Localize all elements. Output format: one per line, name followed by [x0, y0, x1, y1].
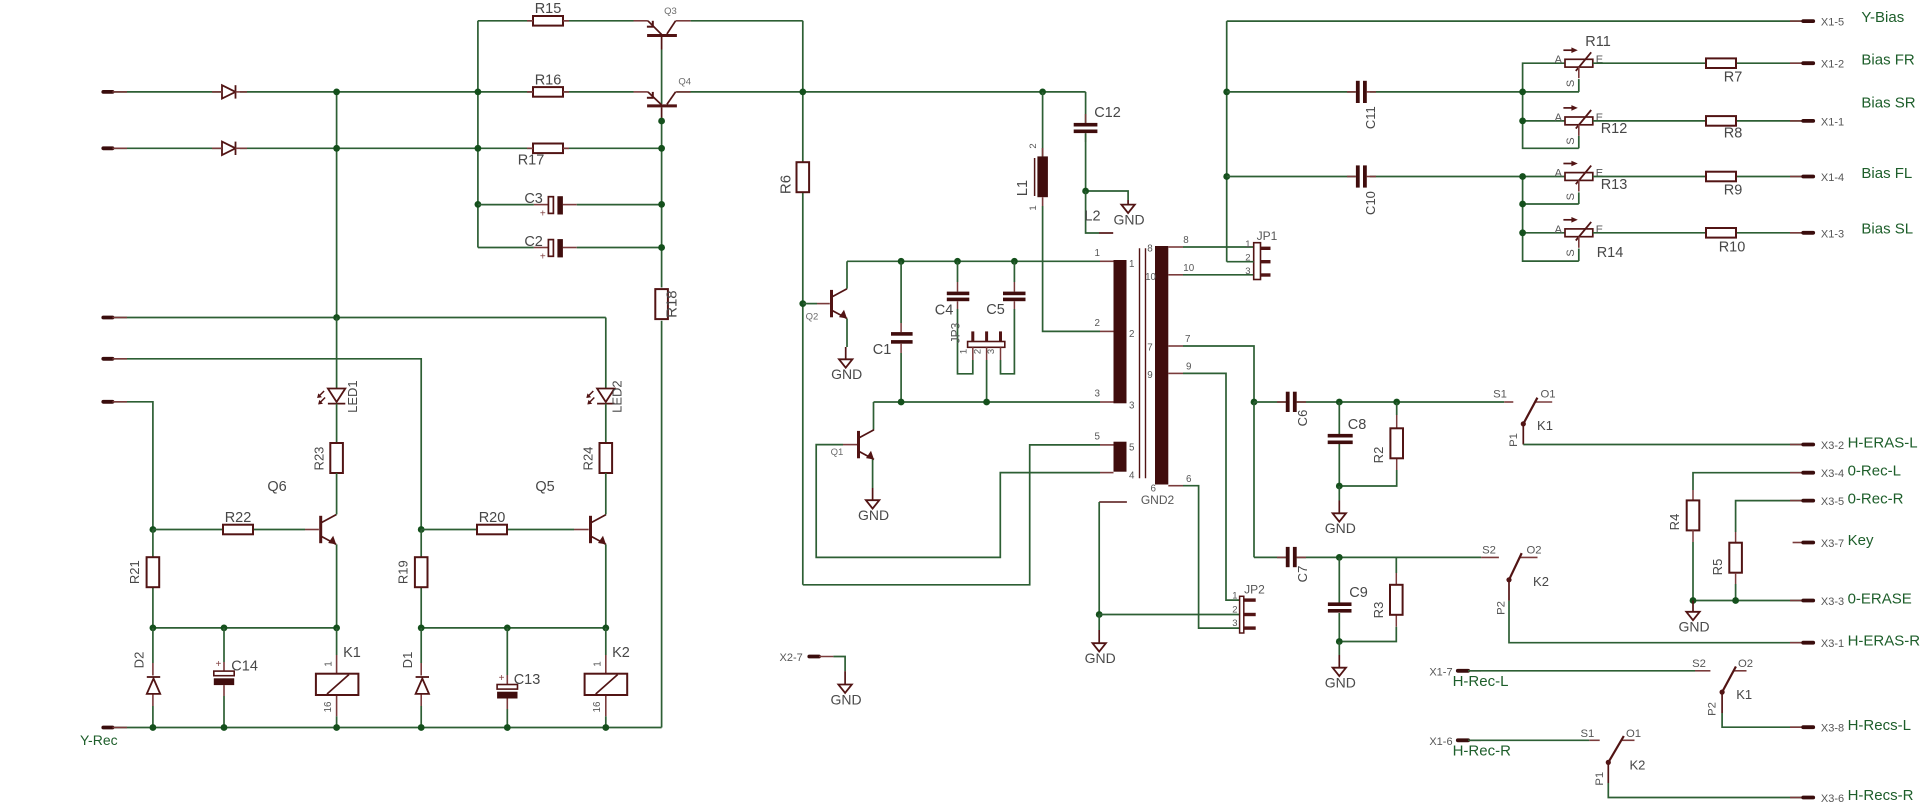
net label Bias SL [1861, 221, 1913, 238]
junction C1 top [898, 258, 905, 265]
capacitor C4 [947, 261, 970, 309]
input stub left 4 [103, 357, 127, 361]
junction C4 top [954, 258, 961, 265]
svg-text:3: 3 [1245, 266, 1250, 277]
junction L1 top [1039, 89, 1046, 96]
label D1 [400, 652, 415, 669]
label R5 [1710, 559, 1725, 576]
trafo pin3 [1095, 389, 1135, 412]
trafo pin8 [1147, 235, 1189, 255]
svg-text:R19: R19 [396, 560, 411, 584]
svg-text:H-Recs-R: H-Recs-R [1848, 787, 1914, 804]
svg-text:2: 2 [972, 349, 983, 354]
svg-text:K2: K2 [1533, 574, 1549, 589]
wire X3-5 row [1736, 501, 1804, 532]
label C2 [524, 234, 546, 262]
label Q2 [806, 312, 819, 323]
svg-text:X1-4: X1-4 [1821, 172, 1844, 184]
svg-text:X3-8: X3-8 [1821, 723, 1844, 735]
svg-text:R20: R20 [479, 510, 506, 526]
wire Q3 base to Q4 [661, 37, 663, 104]
wire L2 stub [1086, 191, 1114, 233]
svg-text:GND: GND [831, 691, 862, 707]
svg-text:H-Recs-L: H-Recs-L [1848, 717, 1911, 734]
svg-text:O1: O1 [1626, 728, 1641, 740]
junction C8 bottom [1336, 483, 1343, 490]
svg-text:R5: R5 [1710, 559, 1725, 576]
wire pin8 to JP1 [1183, 246, 1254, 248]
svg-text:2: 2 [1232, 605, 1237, 616]
svg-text:H-ERAS-L: H-ERAS-L [1848, 435, 1918, 452]
wire R7 row [1593, 62, 1803, 64]
capacitor C13 [497, 685, 517, 699]
svg-text:X2-7: X2-7 [780, 652, 803, 664]
svg-text:GND: GND [1114, 211, 1145, 227]
label P2 (K2) [1496, 601, 1508, 615]
svg-text:R14: R14 [1597, 245, 1624, 261]
pin X3-1 [1790, 638, 1844, 650]
resistor R8 [1706, 116, 1736, 126]
label K1 lower [1736, 687, 1752, 702]
resistor R4 [1687, 490, 1700, 601]
wire net3 row [874, 401, 1101, 403]
wire K2 coil column [605, 628, 607, 728]
wire X1-7 to S2 [1468, 670, 1710, 672]
svg-text:C14: C14 [231, 659, 258, 675]
svg-text:R12: R12 [1601, 121, 1628, 137]
label LED1 [345, 380, 360, 413]
trimmer R12 [1563, 105, 1592, 136]
svg-text:8: 8 [1147, 244, 1153, 255]
net label H-Recs-R [1848, 787, 1914, 804]
label R23 [312, 447, 327, 471]
diode D1 [416, 677, 429, 694]
capacitor C12 [1074, 114, 1098, 142]
input stub top-left 1 [103, 90, 127, 94]
junction rail d [418, 724, 425, 731]
svg-text:P1: P1 [1594, 772, 1606, 786]
svg-text:2: 2 [1095, 318, 1100, 329]
switch K2 contact [1506, 553, 1537, 582]
svg-text:P2: P2 [1707, 702, 1719, 716]
transformer T1 left winding [1114, 260, 1127, 403]
label R7 [1724, 70, 1743, 86]
svg-text:+: + [499, 673, 505, 684]
wire x1254 down to C7 [1253, 402, 1255, 557]
wire C6 row [1254, 401, 1513, 403]
label P2 (k3) [1707, 702, 1719, 716]
svg-text:R11: R11 [1585, 34, 1611, 50]
junction C1 bottom [898, 399, 905, 406]
svg-text:C2: C2 [524, 234, 543, 250]
wire net y628 right [421, 627, 606, 629]
junction x803 y92 [799, 89, 806, 96]
svg-text:O2: O2 [1526, 545, 1541, 557]
net label Key [1848, 532, 1874, 549]
svg-text:O1: O1 [1540, 389, 1555, 401]
wire LED1 string [337, 318, 606, 389]
net X2-7 stub [809, 655, 819, 659]
svg-text:10: 10 [1183, 263, 1194, 274]
svg-text:C8: C8 [1348, 417, 1367, 433]
svg-text:5: 5 [1129, 443, 1135, 454]
wire LED2-R24 [605, 404, 607, 443]
junction x478 y204 [475, 201, 482, 208]
wire R20 row [421, 529, 589, 531]
svg-text:+: + [540, 251, 546, 262]
svg-text:2: 2 [1028, 143, 1039, 148]
svg-text:R24: R24 [581, 447, 596, 471]
wire net y317 row [113, 317, 606, 319]
svg-text:D1: D1 [400, 652, 415, 669]
svg-text:R2: R2 [1371, 447, 1386, 464]
svg-text:E: E [1596, 54, 1603, 66]
switch K1 contact [1521, 398, 1552, 427]
pin X3-4 [1790, 468, 1844, 480]
label JP2 [1232, 583, 1265, 630]
svg-text:E: E [1596, 224, 1603, 236]
capacitor C7 [1277, 547, 1306, 567]
label O1 (k4) [1626, 728, 1641, 740]
label C10 [1363, 191, 1378, 215]
svg-text:L2: L2 [1084, 209, 1100, 225]
svg-text:C6: C6 [1295, 410, 1310, 427]
wire C13 column [506, 628, 508, 728]
transistor Q6 [321, 514, 337, 544]
svg-text:R8: R8 [1724, 126, 1743, 142]
wire net y21 top [478, 20, 803, 22]
svg-text:C13: C13 [514, 672, 541, 688]
svg-text:1: 1 [959, 349, 970, 354]
svg-text:X1-2: X1-2 [1821, 59, 1844, 71]
junction x478 y92 [475, 89, 482, 96]
svg-text:Q5: Q5 [535, 479, 554, 495]
wire K2 lower P1 [1608, 762, 1803, 797]
label C11 [1363, 106, 1378, 129]
pin X3-7 [1803, 538, 1844, 550]
wire X3-3 row [1693, 600, 1803, 602]
svg-text:GND2: GND2 [1141, 493, 1175, 507]
ground GND (Q1) [858, 488, 889, 523]
svg-text:GND: GND [1325, 520, 1356, 536]
pin X3-2 [1790, 440, 1844, 452]
svg-text:GND: GND [831, 366, 862, 382]
input stub left 3 [103, 316, 127, 320]
label P1 (k4) [1594, 772, 1606, 786]
wire net y628 left [153, 627, 337, 629]
svg-text:8: 8 [1183, 235, 1189, 246]
wire R10 row [1593, 232, 1803, 234]
svg-text:A: A [1555, 168, 1563, 180]
junction x336 y317 [333, 314, 340, 321]
svg-text:C1: C1 [873, 342, 892, 358]
net label H-ERAS-R [1848, 633, 1920, 650]
junction R13 A node [1519, 173, 1526, 180]
svg-text:R4: R4 [1667, 514, 1682, 531]
pin X3-5 [1790, 496, 1844, 508]
junction JP3 pin2 [983, 399, 990, 406]
junction x336 y92 [333, 89, 340, 96]
svg-text:X3-6: X3-6 [1821, 793, 1844, 805]
wire pin7 route [1183, 346, 1254, 402]
label Q5 [535, 479, 554, 495]
resistor R5 [1729, 532, 1742, 601]
diode D(top1) [212, 85, 247, 98]
svg-text:Q3: Q3 [664, 6, 677, 17]
svg-text:3: 3 [1232, 618, 1237, 629]
wire pin9 route [1183, 373, 1239, 600]
junction C10 left [1223, 173, 1230, 180]
junction R2 top [1393, 399, 1400, 406]
svg-text:C12: C12 [1094, 105, 1121, 121]
svg-text:H-Rec-R: H-Rec-R [1453, 742, 1511, 759]
label P1 (K1) [1508, 433, 1520, 447]
wire R13 bus [1523, 177, 1579, 262]
svg-text:R6: R6 [777, 175, 794, 194]
wire Q1 base route [816, 445, 1100, 558]
capacitor C6 [1277, 392, 1306, 412]
net label H-Rec-L [1453, 673, 1509, 690]
junction y628 d [418, 625, 425, 632]
svg-text:R3: R3 [1371, 602, 1386, 619]
svg-text:Q1: Q1 [831, 447, 844, 458]
wire Q2 collector up [846, 261, 848, 288]
svg-text:A: A [1555, 112, 1563, 124]
pin X1-1 [1790, 116, 1844, 128]
svg-text:X3-4: X3-4 [1821, 468, 1844, 480]
junction R13 S node [1519, 201, 1526, 208]
svg-text:Bias FR: Bias FR [1861, 52, 1915, 69]
svg-text:0-Rec-L: 0-Rec-L [1848, 463, 1901, 480]
svg-text:16: 16 [592, 701, 603, 712]
label C13 [499, 672, 541, 688]
wire X2-7 to gnd [819, 657, 845, 672]
svg-text:GND: GND [1325, 675, 1356, 691]
pin X1-3 [1790, 228, 1844, 240]
svg-text:S2: S2 [1482, 545, 1496, 557]
junction x478 y148 [475, 145, 482, 152]
wire K2 P2 [1509, 580, 1803, 643]
junction R22 left [150, 526, 157, 533]
wire D1 column [420, 628, 422, 728]
wire Q4 base down / R18 column [661, 118, 663, 728]
resistor R20 [477, 525, 507, 535]
svg-text:JP1: JP1 [1257, 229, 1278, 243]
label O2 (k3) [1738, 658, 1753, 670]
pin X1-4 [1790, 172, 1844, 184]
pin X3-6 [1790, 793, 1844, 805]
net label H-Recs-L [1848, 717, 1911, 734]
svg-text:C11: C11 [1363, 106, 1378, 129]
svg-text:P1: P1 [1508, 433, 1520, 447]
wire R22 row [153, 529, 319, 531]
svg-text:S: S [1565, 80, 1577, 87]
wire GND2 to gnd [1098, 502, 1100, 615]
labels R14 [1555, 224, 1624, 261]
label R18 [664, 290, 681, 318]
label C12 [1094, 105, 1121, 121]
ground GND (C9) [1325, 642, 1356, 691]
label X2-7 [780, 652, 803, 664]
capacitor C8 [1328, 434, 1353, 444]
junction pin7/C6 node [1251, 399, 1258, 406]
trimmer R11 [1563, 47, 1592, 78]
switch K2 lower contact [1606, 736, 1635, 765]
wire C11 row [1227, 91, 1579, 93]
wire net1 top cap row [847, 260, 1100, 262]
wire X1-6 to S1 [1468, 739, 1600, 741]
capacitor C3 [534, 196, 577, 214]
svg-text:C5: C5 [986, 302, 1005, 318]
junction R14 A node [1519, 229, 1526, 236]
svg-text:X3-1: X3-1 [1821, 638, 1844, 650]
svg-text:R9: R9 [1724, 183, 1743, 199]
junction x661 y248 [658, 244, 665, 251]
input stub left 5 [103, 400, 127, 404]
svg-text:1: 1 [1245, 239, 1250, 250]
svg-text:9: 9 [1186, 362, 1191, 373]
pin X3-8 [1790, 723, 1844, 735]
svg-text:JP3: JP3 [949, 322, 963, 343]
wire K1 coil column [336, 628, 338, 728]
svg-text:C7: C7 [1295, 566, 1310, 583]
ground GND (Q2) [831, 347, 862, 382]
svg-text:S2: S2 [1692, 658, 1706, 670]
junction R12 A node [1519, 118, 1526, 125]
label S1 [1493, 389, 1507, 401]
svg-text:+: + [540, 209, 546, 220]
label K2 relay [592, 645, 630, 712]
pin X1-7 [1429, 666, 1481, 678]
diode D2 [147, 677, 160, 694]
svg-text:+: + [215, 659, 221, 670]
wire R11 bus [1523, 63, 1579, 148]
svg-text:X1-6: X1-6 [1429, 736, 1452, 748]
junction rail a [150, 724, 157, 731]
junction y628 e [504, 625, 511, 632]
wire D2 column [152, 628, 154, 728]
wire net y402 row [113, 402, 153, 530]
wire Q6 emitter down [336, 544, 338, 628]
junction rail e [504, 724, 511, 731]
pin X1-5 [1790, 17, 1844, 29]
junction Q4 base y121 [658, 118, 665, 125]
label R17 [518, 153, 545, 169]
svg-text:X3-3: X3-3 [1821, 596, 1844, 608]
svg-text:C10: C10 [1363, 191, 1378, 215]
wire pin10 to JP1 [1183, 274, 1254, 276]
diode D(top2) [212, 142, 247, 155]
svg-text:4: 4 [1129, 471, 1135, 482]
label R9 [1724, 183, 1743, 199]
svg-text:GND: GND [1085, 650, 1116, 666]
wire vertical x478 left bus [477, 21, 479, 248]
svg-text:H-ERAS-R: H-ERAS-R [1848, 633, 1920, 650]
label O1 [1540, 389, 1555, 401]
label LED2 [610, 380, 625, 413]
labels R12 [1555, 112, 1628, 145]
junction R19 left [418, 526, 425, 533]
trafo pin1 [1095, 248, 1135, 270]
label C1 [873, 342, 892, 358]
svg-text:R13: R13 [1601, 177, 1628, 193]
net GND2 stub [1099, 501, 1127, 503]
wire R23-Q6col [336, 473, 338, 514]
ground GND (X2-7) [831, 671, 862, 707]
label C7 [1295, 566, 1310, 583]
svg-text:S1: S1 [1493, 389, 1507, 401]
label K1 switch [1537, 418, 1553, 433]
wire JP3 pin2 down [986, 360, 988, 402]
ground GND (C8) [1325, 486, 1356, 536]
label JP1 [1245, 229, 1277, 277]
wire C8 column [1338, 402, 1340, 486]
wire C10 row [1227, 176, 1565, 178]
label K2 lower [1629, 758, 1645, 773]
capacitor C1 [891, 261, 913, 402]
trafo pin7 [1147, 334, 1190, 354]
label K2 switch [1533, 574, 1549, 589]
wire net y358 row [113, 359, 422, 530]
trafo pin5 [1095, 431, 1135, 453]
svg-text:R22: R22 [225, 510, 252, 526]
junction x336 y148 [333, 145, 340, 152]
transformer core [1140, 248, 1146, 478]
svg-text:LED1: LED1 [345, 380, 360, 413]
junction rail f [602, 724, 609, 731]
junction C5 top [1011, 258, 1018, 265]
svg-text:1: 1 [1232, 590, 1237, 601]
svg-text:R17: R17 [518, 153, 545, 169]
transistor Q2 [832, 289, 848, 319]
junction x661 y204 [658, 201, 665, 208]
wire Q5 emitter down [605, 544, 607, 628]
svg-text:3: 3 [986, 349, 997, 354]
wire net C3 row [478, 204, 662, 206]
resistor R6 [797, 162, 810, 192]
svg-text:C9: C9 [1349, 585, 1368, 601]
wire rail Y-Rec [113, 727, 662, 729]
label L2 [1084, 209, 1100, 225]
junction y628 b [221, 625, 228, 632]
svg-text:X3-7: X3-7 [1821, 538, 1844, 550]
svg-text:0-Rec-R: 0-Rec-R [1848, 490, 1904, 507]
wire Q1 emitter gnd [872, 460, 874, 489]
resistor R24 [600, 443, 613, 473]
resistor R2 [1390, 428, 1403, 458]
label O2 [1526, 545, 1541, 557]
label R20 [479, 510, 506, 526]
label Q3 [664, 6, 677, 17]
ground GND (GND2) [1085, 615, 1116, 667]
wire R9 row [1593, 176, 1803, 178]
capacitor C9 [1328, 602, 1352, 612]
svg-text:R18: R18 [664, 290, 681, 318]
label Q4 [678, 77, 691, 88]
resistor R7 [1706, 58, 1736, 68]
junction R4 bottom [1690, 597, 1697, 604]
junction x661 y148 [658, 145, 665, 152]
svg-text:C3: C3 [524, 191, 543, 207]
svg-text:A: A [1555, 54, 1563, 66]
net label H-ERAS-L [1848, 435, 1918, 452]
label D2 [132, 652, 147, 669]
ground GND (X3-3) [1678, 601, 1709, 635]
switch K1 lower contact [1720, 667, 1747, 695]
svg-text:E: E [1596, 168, 1603, 180]
junction y628 c [333, 625, 340, 632]
wire R24-Q5col [605, 473, 607, 514]
